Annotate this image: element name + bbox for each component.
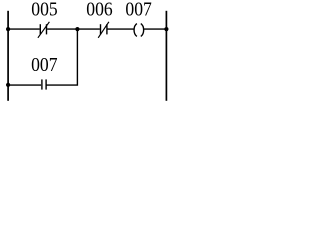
- contact 007 (normally open): [42, 79, 46, 89]
- wire branch: left rail to contact 007: [8, 84, 41, 86]
- label 007 (branch contact): [31, 54, 57, 76]
- svg-text:006: 006: [86, 0, 112, 21]
- wire rung1: contact 006 to coil 007: [108, 28, 135, 30]
- label 006: [86, 0, 112, 21]
- contact 005 (normally closed): [38, 22, 50, 38]
- contact 006 (normally closed): [98, 22, 109, 38]
- label 007 (coil): [125, 0, 151, 21]
- svg-text:007: 007: [125, 0, 151, 21]
- junction dot right rail / rung1: [164, 27, 168, 31]
- svg-text:005: 005: [31, 0, 57, 21]
- left power rail: [7, 11, 9, 101]
- wire rung1: node A to contact 006: [77, 28, 100, 30]
- wire branch: contact 007 up to node A: [47, 29, 78, 85]
- wire rung1: coil 007 to right rail: [144, 28, 167, 30]
- right power rail: [165, 11, 167, 101]
- coil 007: [134, 24, 144, 37]
- wire rung1: left rail to contact 005: [8, 28, 40, 30]
- node A junction dot: [75, 27, 79, 31]
- junction dot left rail / branch: [6, 83, 10, 87]
- svg-text:007: 007: [31, 54, 57, 76]
- junction dot left rail / rung1: [6, 27, 10, 31]
- wire rung1: contact 005 to node A (junction): [47, 28, 77, 30]
- label 005: [31, 0, 57, 21]
